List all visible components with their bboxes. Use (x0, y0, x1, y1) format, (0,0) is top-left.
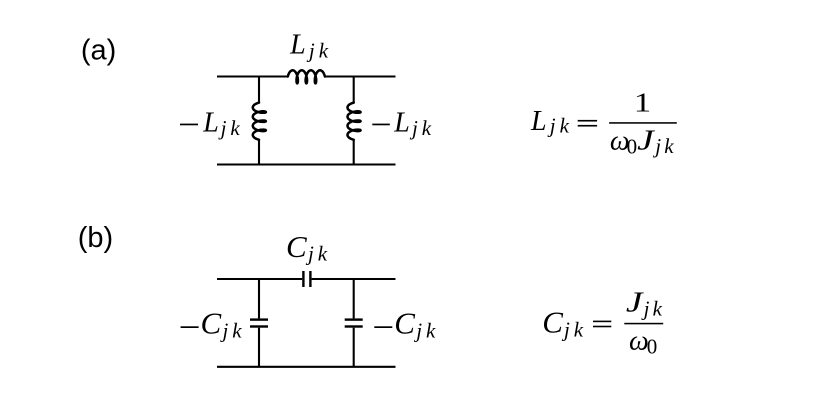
capacitor -Cjk (left shunt of (b)): bottom plate (250, 325, 268, 327)
equation (a): equals sign (578, 120, 597, 127)
svg-text:k: k (574, 317, 584, 341)
value label -Ljk left of left shunt inductor (180, 107, 240, 140)
equation (b): denominator w0 (629, 326, 657, 359)
capacitor Cjk (series, top of (b)): right plate (309, 271, 311, 287)
svg-text:L: L (393, 107, 410, 138)
svg-text:k: k (422, 116, 432, 140)
equation (a): left-hand side Ljk (530, 106, 570, 138)
wire: left shunt upper lead (a) (258, 77, 260, 104)
svg-text:j: j (306, 38, 315, 62)
svg-text:L: L (530, 106, 547, 137)
svg-text:k: k (560, 114, 570, 138)
label (a) (81, 34, 116, 66)
svg-text:C: C (394, 306, 415, 341)
inductor -Ljk (left shunt of (a)) (253, 103, 266, 140)
svg-text:C: C (286, 229, 307, 264)
svg-text:j: j (409, 116, 418, 140)
wire: bottom rail of (a) (217, 163, 396, 165)
value label Ljk above series inductor (289, 30, 329, 63)
svg-text:L: L (289, 30, 306, 61)
svg-text:k: k (232, 318, 242, 342)
equation (b): left-hand side Cjk (542, 304, 584, 341)
svg-text:C: C (201, 306, 222, 341)
equation (b): equals sign (593, 321, 611, 328)
svg-text:k: k (318, 242, 328, 266)
label (b) (78, 222, 113, 254)
svg-text:k: k (319, 38, 329, 62)
svg-text:0: 0 (647, 335, 658, 359)
svg-text:k: k (426, 318, 436, 342)
capacitor -Cjk (right shunt of (b)): top plate (345, 318, 363, 320)
wire: left shunt lower lead (b) (258, 328, 260, 367)
svg-text:0: 0 (627, 135, 638, 159)
svg-text:J: J (626, 288, 645, 319)
value label -Ljk right of right shunt inductor (372, 107, 432, 140)
wire: top-right segment of (b) (312, 278, 396, 280)
svg-text:J: J (637, 125, 656, 156)
svg-text:C: C (542, 304, 563, 339)
svg-text:j: j (547, 114, 556, 138)
inductor -Ljk (right shunt of (a)) (348, 103, 361, 140)
equation (a): fraction bar (609, 122, 677, 124)
svg-text:j: j (218, 116, 227, 140)
svg-text:k: k (664, 134, 674, 158)
svg-text:k: k (230, 116, 240, 140)
svg-text:k: k (653, 297, 663, 321)
wire: bottom rail of (b) (217, 366, 396, 368)
value label Cjk above series capacitor (286, 229, 328, 265)
wire: right shunt upper lead (a) (353, 77, 355, 104)
equation (a): numerator 1 (634, 88, 652, 118)
wire: right shunt lower lead (b) (353, 328, 355, 367)
value label -Cjk left of left shunt capacitor (181, 306, 243, 343)
equation (a): denominator w0 Jjk (610, 125, 674, 158)
svg-text:1: 1 (634, 88, 652, 118)
wire: right shunt lower lead (a) (353, 139, 355, 164)
wire: top-left segment of (a) (217, 75, 288, 77)
wire: right shunt upper lead (b) (353, 279, 355, 318)
wire: top-left segment of (b) (217, 278, 302, 280)
capacitor -Cjk (left shunt of (b)): top plate (250, 318, 268, 320)
inductor Ljk (series element, top of (a)) (288, 70, 325, 83)
wire: top-right segment of (a) (325, 75, 396, 77)
value label -Cjk right of right shunt capacitor (374, 306, 436, 343)
capacitor Cjk (series, top of (b)): left plate (302, 271, 304, 287)
equation (b): numerator Jjk (626, 288, 663, 321)
wire: left shunt upper lead (b) (258, 279, 260, 318)
svg-text:(b): (b) (78, 222, 113, 254)
svg-text:L: L (202, 107, 219, 138)
wire: left shunt lower lead (a) (258, 139, 260, 164)
capacitor -Cjk (right shunt of (b)): bottom plate (345, 325, 363, 327)
equation (b): fraction bar (624, 323, 663, 325)
svg-text:(a): (a) (81, 34, 116, 66)
